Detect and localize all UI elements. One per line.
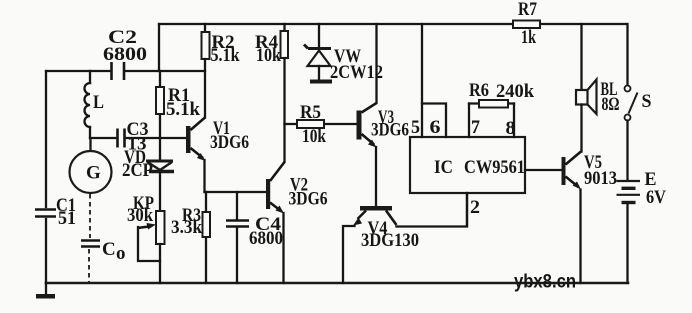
svg-text:ybx8.cn: ybx8.cn [514, 272, 576, 293]
svg-text:o: o [116, 243, 126, 264]
speaker BL [576, 79, 620, 115]
wire V1 emitter down [203, 160, 205, 192]
wire rail to V3 collector [375, 24, 377, 103]
wire IC pin 2 [466, 193, 468, 226]
svg-text:6V: 6V [646, 187, 666, 208]
wire V5 emitter to ground rail [579, 190, 581, 284]
wire V4 collector to IC pin 2 [397, 193, 468, 227]
potentiometer KP [127, 193, 165, 283]
capacitor C3 [90, 119, 149, 155]
svg-text:5.1k: 5.1k [211, 45, 240, 66]
switch S [625, 86, 652, 121]
wire IC pin 8 [513, 104, 515, 138]
resistor R2 [202, 24, 240, 66]
wire switch to battery [626, 121, 628, 180]
resistor R1 [156, 71, 200, 138]
svg-text:30k: 30k [127, 205, 153, 226]
svg-text:9013: 9013 [584, 168, 617, 189]
svg-text:3DG6: 3DG6 [371, 120, 409, 141]
wire left vertical branch [45, 71, 47, 283]
svg-text:2CW12: 2CW12 [330, 62, 383, 83]
capacitor Co with dashed leads [81, 194, 126, 282]
svg-text:7: 7 [471, 117, 480, 138]
svg-text:R5: R5 [300, 102, 321, 123]
capacitor C2 [103, 27, 147, 80]
wire rail to speaker [580, 24, 582, 90]
svg-text:R6: R6 [469, 80, 489, 101]
generator G [70, 151, 112, 193]
wire top power rail [159, 23, 627, 25]
ground [36, 283, 55, 299]
wire V4 emitter to ground rail [343, 226, 355, 283]
svg-text:2CP: 2CP [122, 160, 153, 181]
wire battery to ground rail [626, 205, 628, 284]
svg-text:5: 5 [411, 117, 420, 138]
wire R4 bottom to V2 collector [283, 58, 285, 162]
svg-text:6: 6 [430, 117, 441, 138]
wire rail right corner to switch [626, 24, 628, 86]
wire C3 to V1 base [125, 137, 186, 139]
wire V1 emitter node to V2 base [205, 191, 267, 193]
wire V2 emitter down [282, 213, 284, 283]
svg-text:3.3k: 3.3k [171, 217, 202, 238]
resistor R3 [171, 192, 210, 283]
transistor V1 [186, 118, 249, 162]
resistor R4 [255, 24, 288, 66]
svg-text:3DG6: 3DG6 [210, 132, 249, 153]
battery E [617, 169, 667, 208]
svg-text:10k: 10k [256, 45, 281, 66]
svg-text:51: 51 [58, 208, 76, 229]
svg-text:3DG130: 3DG130 [361, 230, 419, 251]
svg-text:8: 8 [506, 118, 516, 139]
svg-text:G: G [86, 163, 101, 184]
transistor V3 [357, 103, 410, 148]
svg-text:5.1k: 5.1k [166, 99, 200, 120]
svg-text:6800: 6800 [103, 44, 147, 65]
wire L/C3 junction down to generator [89, 138, 91, 152]
resistor R7 [513, 0, 540, 48]
wire IC pin 7 [468, 104, 470, 138]
svg-text:6800: 6800 [249, 228, 283, 249]
wire left rail drop to oscillator node [158, 24, 160, 71]
svg-text:IC: IC [434, 157, 453, 178]
svg-text:L: L [93, 92, 104, 113]
svg-text:3DG6: 3DG6 [289, 189, 328, 210]
svg-text:CW9561: CW9561 [464, 157, 525, 178]
resistor R5 [285, 102, 357, 147]
svg-text:10k: 10k [302, 126, 326, 147]
svg-text:1k: 1k [521, 27, 536, 48]
capacitor C1 [35, 195, 76, 229]
IC U1 CW9561 [410, 137, 525, 193]
capacitor C4 [226, 192, 283, 283]
wire IC pin 6 strap [422, 104, 446, 138]
wire bottom ground rail [46, 282, 628, 285]
wire IC pin 5 to rail [421, 24, 423, 137]
transistor V4 [353, 206, 419, 251]
wire oscillator node horizontal [46, 70, 205, 72]
resistor R6 [469, 80, 534, 108]
svg-text:R7: R7 [518, 0, 537, 20]
svg-text:240k: 240k [496, 81, 534, 102]
zener diode VW [304, 24, 383, 83]
diode VD [122, 138, 174, 211]
transistor V5 [562, 152, 618, 190]
wire R2 bottom to V1 collector [204, 59, 206, 118]
wire speaker to V5 collector [580, 105, 582, 152]
svg-text:C: C [102, 239, 116, 260]
svg-text:S: S [642, 91, 652, 112]
transistor V2 [266, 162, 328, 214]
inductor L [85, 71, 105, 138]
svg-text:2: 2 [470, 197, 480, 218]
wire V3 emitter to V4 base [375, 147, 377, 206]
wire IC output to V5 base [525, 169, 562, 171]
svg-text:8Ω: 8Ω [602, 94, 620, 115]
